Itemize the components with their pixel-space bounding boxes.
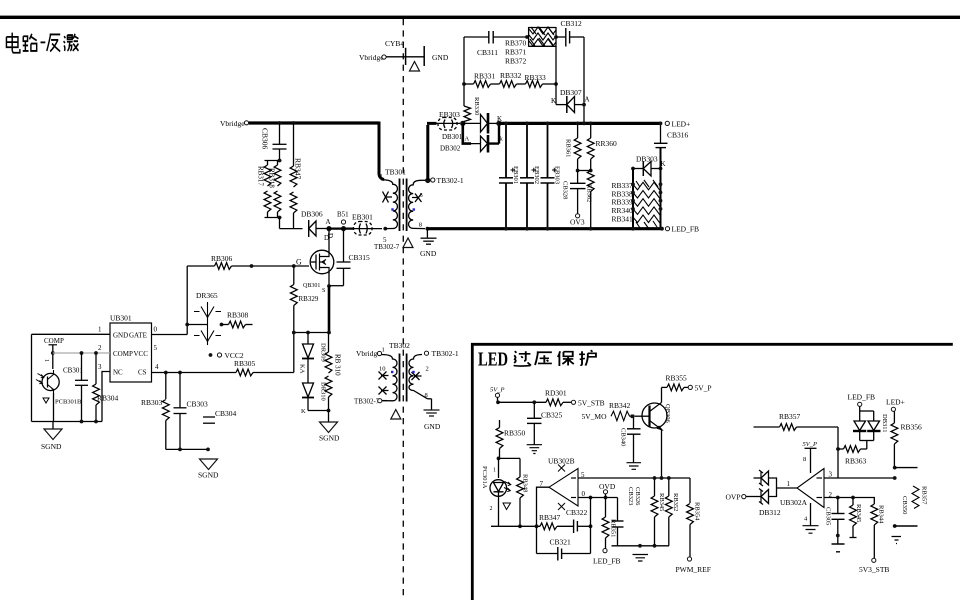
wire pin3 net [824, 477, 895, 479]
svg-text:RB317: RB317 [257, 166, 265, 186]
node LED+ terminal [659, 120, 691, 129]
resistor RB355 [662, 374, 689, 391]
svg-text:RB345: RB345 [855, 504, 862, 522]
resistor RB332 [491, 71, 522, 87]
svg-text:RB344: RB344 [878, 505, 885, 524]
svg-text:CB304: CB304 [215, 409, 237, 418]
svg-text:A: A [326, 218, 331, 226]
wire snubber bottom [280, 228, 303, 230]
svg-text:A: A [465, 136, 470, 143]
svg-text:DB301: DB301 [442, 133, 463, 141]
svg-text:5: 5 [154, 344, 158, 352]
node LED_FB terminal [660, 225, 699, 234]
wire secondary vertical thick [427, 123, 437, 180]
svg-text:EB301: EB301 [352, 213, 373, 222]
resistor RB306 (gate series) [187, 254, 309, 269]
node Vbridge (primary input terminal) [220, 119, 249, 128]
svg-text:CB328: CB328 [562, 181, 569, 199]
capacitor CB305 [825, 498, 845, 552]
op-amp U_B301 controller IC UB301 [98, 314, 159, 383]
svg-text:TB302-1: TB302-1 [432, 349, 459, 358]
wire comp network bottom rail [612, 545, 670, 547]
resistor RB333 [517, 73, 558, 87]
core TB302 [399, 354, 401, 402]
svg-text:PC301A: PC301A [481, 466, 488, 489]
svg-text:TB302-1: TB302-1 [437, 176, 464, 185]
svg-text:CB350: CB350 [901, 496, 908, 514]
resistor RB345 (to +in) [651, 476, 665, 546]
svg-text:10: 10 [379, 366, 386, 373]
svg-text:S: S [322, 288, 325, 294]
svg-text:PCB301B: PCB301B [55, 399, 82, 406]
wire diode bottom [308, 410, 329, 412]
wire pin6 node vertical [590, 498, 592, 554]
capacitor CYB4 (Y-cap across isolation) [359, 39, 449, 66]
shunt resistor block RB337-RB341 [631, 148, 662, 231]
primary winding [381, 180, 397, 229]
svg-text:5V3_STB: 5V3_STB [859, 565, 889, 574]
svg-text:DB312: DB312 [759, 508, 781, 517]
resistor RB348 [517, 472, 529, 528]
diode DB303 [631, 155, 665, 177]
capacitor CB306 [261, 123, 287, 161]
resistor RB352 [665, 476, 679, 546]
node junction on bus (RB347) [292, 121, 296, 125]
resistor RB331 [464, 72, 496, 88]
node OVD terminal [599, 482, 616, 498]
svg-text:OVD: OVD [599, 482, 616, 491]
svg-text:CB323: CB323 [627, 487, 634, 505]
node bus junctions [576, 122, 580, 126]
svg-text:RB356: RB356 [901, 423, 923, 432]
resistor RB361 [565, 123, 581, 170]
wire bracket to snubber diode line [279, 218, 281, 229]
capacitor CB311 [477, 31, 527, 57]
ground (right stub) [892, 537, 902, 544]
svg-text:EB301: EB301 [512, 166, 519, 184]
svg-text:RB305: RB305 [234, 359, 256, 368]
svg-text:RB345: RB345 [658, 493, 665, 511]
svg-text:TB302-7: TB302-7 [354, 398, 380, 406]
svg-text:GND: GND [432, 53, 449, 62]
svg-text:RB355: RB355 [666, 374, 688, 383]
svg-text:2: 2 [490, 506, 493, 512]
svg-text:RB318: RB318 [268, 168, 276, 188]
svg-text:PWM_REF: PWM_REF [676, 565, 711, 574]
resistor RB345 (pin2 load) [850, 498, 863, 538]
svg-text:RB350: RB350 [504, 429, 526, 438]
svg-text:3: 3 [98, 363, 102, 371]
svg-text:OV3: OV3 [570, 218, 585, 227]
ground (CB325) [527, 445, 542, 454]
capacitor CB328 [562, 171, 586, 214]
polarity dots TB302 (blue) [391, 371, 393, 373]
title 电路-反激 [6, 33, 78, 53]
svg-text:RB357: RB357 [779, 412, 801, 421]
svg-text:DB303: DB303 [636, 155, 658, 164]
resistor RB350 [496, 420, 525, 460]
capacitor CB325 [527, 402, 563, 444]
secondary winding [409, 180, 425, 228]
wire output return bus [427, 227, 662, 230]
svg-text:Vbridge: Vbridge [359, 53, 384, 62]
transformer TB302 (aux) [354, 341, 459, 406]
svg-text:8: 8 [803, 456, 806, 463]
svg-text:RB342: RB342 [609, 401, 631, 410]
wire left gate rail [186, 266, 188, 335]
primary tap X [383, 192, 393, 203]
resistor RB330 [462, 37, 480, 122]
wire pin2 net [824, 498, 874, 505]
svg-text:RB363: RB363 [845, 457, 867, 466]
svg-text:EB302: EB302 [533, 166, 540, 184]
svg-text:CB321: CB321 [550, 538, 572, 547]
capacitor CB312 [556, 19, 584, 47]
wire pin1 to left rail [32, 333, 111, 335]
svg-text:RB372: RB372 [505, 57, 527, 66]
node PWM_REF terminal [676, 557, 711, 574]
op-amp UB302A [777, 469, 833, 508]
op-amp UB302B [535, 457, 586, 529]
svg-text:RR360: RR360 [596, 139, 618, 148]
svg-text:LED+: LED+ [672, 120, 691, 129]
secondary winding TB302 [409, 355, 428, 399]
svg-text:RB352: RB352 [672, 493, 679, 511]
resistor RB357 (sense) [912, 486, 928, 509]
wire bottom rail [32, 421, 103, 423]
wire +in (pin5) [578, 477, 690, 479]
node 5V_P power (UB302A pin8) [803, 441, 817, 473]
diode DB306 [301, 210, 327, 238]
node COMP stub [44, 337, 64, 369]
ground (CB340) [627, 463, 642, 470]
ground SGND (clamp) [319, 411, 340, 443]
svg-text:RB341: RB341 [612, 214, 634, 223]
svg-text:CB311: CB311 [477, 48, 498, 57]
transistor QB306 [635, 387, 672, 480]
ferrite bead EB301 [346, 213, 382, 236]
node 5V_P terminal (QB306) [688, 384, 711, 393]
top border line [0, 16, 960, 19]
resistor RB351 [602, 498, 616, 549]
resistor RB310 [325, 333, 341, 411]
wire pin2 (faint) [53, 352, 110, 354]
svg-text:CB340: CB340 [620, 428, 627, 446]
svg-text:1: 1 [382, 347, 385, 354]
svg-text:CB303: CB303 [187, 400, 209, 409]
optocoupler PC301A (LED side) [481, 458, 511, 526]
diode DR310 [301, 382, 327, 415]
svg-text:3: 3 [829, 471, 833, 479]
svg-text:1: 1 [787, 480, 791, 488]
capacitor CB340 [620, 418, 641, 463]
resistor RB329 (gate-source) [290, 266, 318, 333]
svg-text:RB354: RB354 [694, 502, 701, 521]
svg-text:COMP: COMP [113, 350, 133, 358]
diode DR365 (dual) [187, 291, 221, 345]
resistor RB308 [220, 311, 253, 328]
resistor RB347 (feedback) [539, 513, 573, 530]
ground GND (TB302) [424, 399, 441, 431]
svg-text:SGND: SGND [41, 442, 62, 451]
svg-text:8: 8 [419, 222, 422, 229]
svg-text:RB357: RB357 [921, 486, 928, 505]
svg-text:UB302B: UB302B [548, 457, 575, 466]
resistor RB356 [891, 412, 922, 467]
svg-text:RB304: RB304 [97, 394, 119, 403]
LED protection box border [472, 344, 953, 600]
ground SGND (CS network) [198, 459, 219, 480]
snubber: wire top rail [464, 36, 489, 38]
resistor RB344 [871, 504, 885, 558]
node TB302-1 terminal [421, 179, 426, 181]
svg-text:CB326: CB326 [634, 487, 641, 506]
svg-text:1: 1 [98, 326, 102, 334]
svg-text:LED+: LED+ [886, 398, 905, 407]
ground delta (TB301) [403, 238, 413, 248]
diode DB302 [440, 123, 504, 152]
svg-text:CB306: CB306 [261, 128, 270, 150]
svg-text:RB329: RB329 [299, 295, 319, 303]
diode DR309 [299, 333, 327, 384]
svg-text:CB301: CB301 [63, 367, 83, 375]
wire parallel bracket bottom [265, 217, 282, 219]
wire RB357 drop to pin3 [837, 427, 839, 478]
svg-text:TB302-7: TB302-7 [374, 243, 400, 251]
node 5V3_STB terminal [859, 558, 889, 574]
svg-text:CB305: CB305 [825, 507, 832, 525]
polarity dots (blue) [391, 208, 393, 210]
svg-text:NC: NC [113, 369, 123, 377]
svg-text:4: 4 [155, 363, 159, 371]
svg-text:GND: GND [113, 332, 128, 340]
wire parallel bracket top [265, 160, 282, 162]
resistor RB363 [838, 446, 867, 466]
svg-text:3: 3 [420, 192, 423, 199]
svg-text:5V_MO: 5V_MO [582, 412, 608, 421]
svg-text:5V_STB: 5V_STB [578, 398, 605, 407]
node rectifier input junction [460, 121, 465, 126]
svg-text:DR309: DR309 [320, 343, 327, 362]
svg-text:UB301: UB301 [110, 314, 132, 323]
svg-text:RB332: RB332 [500, 71, 522, 80]
wire CS network bottom [166, 448, 208, 450]
node 5V_STB terminal [571, 398, 604, 407]
svg-text:1: 1 [43, 359, 49, 362]
svg-text:DB307: DB307 [560, 88, 582, 97]
svg-text:DB306: DB306 [301, 210, 323, 219]
resistor RB370 RB371 RB372 (parallel block) [505, 27, 558, 66]
svg-text:5V_P: 5V_P [695, 384, 712, 393]
svg-text:LED_FB: LED_FB [672, 225, 700, 234]
ferrite bead EB303 [437, 110, 461, 130]
svg-text:SGND: SGND [198, 471, 219, 480]
resistor RB347 [290, 123, 302, 229]
node B51 terminal [337, 211, 349, 232]
LED box title [478, 349, 596, 371]
capacitor EB303 (electrolytic) [541, 122, 561, 231]
svg-text:RB351: RB351 [610, 519, 617, 537]
resistor RD301 [498, 389, 572, 406]
resistor RB362 [586, 171, 595, 231]
ground delta (CYB4) [410, 62, 420, 72]
svg-text:K: K [551, 97, 556, 105]
node 5V_P terminal (left) [490, 387, 504, 405]
capacitor CB301 [63, 351, 88, 421]
svg-text:G: G [296, 258, 302, 267]
svg-text:EB303: EB303 [554, 166, 561, 184]
center isolation dashed line [402, 19, 404, 600]
node LED_FB terminal (comp) [593, 549, 621, 566]
svg-text:TB302: TB302 [389, 341, 410, 350]
resistor RB354 [687, 478, 701, 557]
capacitor CB316 [654, 123, 689, 168]
svg-text:RB347: RB347 [539, 513, 561, 522]
wire snubber mid rail [555, 46, 557, 104]
node OVP terminal [726, 493, 762, 502]
svg-text:TB301: TB301 [385, 168, 406, 177]
resistor RB357 [754, 412, 839, 430]
svg-text:0: 0 [154, 326, 158, 334]
wire source node rail [294, 332, 329, 334]
svg-text:LED_FB: LED_FB [593, 557, 621, 566]
node A (drain node) [326, 218, 335, 238]
wire GATE pin to rail [152, 334, 188, 336]
capacitor EB302 (electrolytic) [520, 122, 540, 231]
resistor RB304 [93, 351, 119, 421]
svg-text:RB330: RB330 [473, 97, 480, 115]
svg-text:RD301: RD301 [545, 389, 567, 398]
svg-text:CB325: CB325 [541, 411, 563, 420]
svg-text:CB316: CB316 [667, 131, 689, 140]
svg-text:GATE: GATE [129, 332, 147, 340]
wire snubber right drop [583, 37, 585, 123]
wire drain bus segment [327, 228, 353, 230]
wire pin3 drop [102, 372, 110, 422]
svg-text:0: 0 [582, 490, 586, 498]
svg-text:5V_P: 5V_P [803, 441, 817, 448]
node stub upper right [893, 466, 918, 470]
transistor QB301 (MOSFET) [303, 231, 334, 294]
svg-text:2: 2 [426, 366, 429, 373]
svg-text:DB302: DB302 [440, 145, 461, 153]
wire primary top bus [249, 121, 379, 124]
svg-text:UB302A: UB302A [780, 498, 808, 507]
svg-text:RB361: RB361 [565, 139, 572, 157]
svg-text:QB301: QB301 [303, 283, 320, 289]
resistor RB342 [582, 401, 635, 421]
wire thick source drop [328, 286, 331, 333]
svg-text:Vbridge: Vbridge [220, 119, 245, 128]
svg-text:RB370: RB370 [505, 39, 527, 48]
svg-text:CB312: CB312 [561, 19, 583, 28]
capacitor CB315 [329, 231, 370, 286]
ground delta (TB302) [391, 410, 401, 420]
ground (UB302A pin4) [803, 503, 819, 533]
svg-text:K: K [301, 408, 306, 415]
svg-text:KA: KA [299, 364, 306, 374]
ground SGND (left) [41, 422, 62, 452]
ground (comp network) [633, 555, 649, 562]
wire thick drop to TB301 pin1 [379, 122, 384, 180]
wire feedback bottom rail [491, 525, 540, 527]
svg-text:CYB4: CYB4 [385, 39, 404, 48]
svg-text:LED_FB: LED_FB [848, 393, 876, 402]
resistor RB318 [268, 161, 281, 218]
svg-text:5V_P: 5V_P [490, 387, 504, 394]
svg-text:CB315: CB315 [349, 253, 371, 262]
optocoupler PCB301B (transistor side) [36, 359, 82, 422]
capacitor CB323 / CB326 [612, 487, 642, 546]
svg-text:CB322: CB322 [566, 508, 588, 517]
svg-text:GND: GND [420, 249, 437, 258]
svg-text:RB306: RB306 [211, 254, 233, 263]
core lines [399, 179, 401, 232]
svg-text:1: 1 [493, 468, 496, 474]
primary winding TB302 [382, 355, 398, 401]
svg-text:OVP: OVP [726, 493, 741, 502]
node VCC2 terminal [209, 351, 244, 360]
svg-text:CS: CS [138, 369, 147, 377]
svg-text:RB331: RB331 [474, 72, 496, 81]
wire divider mid [578, 170, 591, 172]
secondary tap X [412, 194, 422, 203]
svg-text:RB 310: RB 310 [334, 354, 342, 376]
svg-text:D: D [324, 234, 329, 242]
capacitor EB301 (electrolytic) [499, 122, 519, 231]
wire -in (pin6) [578, 497, 618, 499]
node CS junctions [164, 371, 168, 375]
svg-text:RB308: RB308 [227, 311, 249, 320]
svg-text:COMP: COMP [44, 337, 64, 345]
wire 5V node to opto/divider [499, 457, 521, 459]
resistor RR360 [587, 123, 617, 170]
ground GND (secondary) [420, 229, 437, 258]
node LED+ terminal (right) [886, 398, 905, 412]
capacitor CB321 [537, 526, 591, 560]
wire output bus LED+ [499, 122, 661, 125]
node TB302-1 terminal (top right) [424, 351, 428, 355]
svg-text:VCC: VCC [134, 350, 149, 358]
diode DB301 [442, 113, 497, 141]
svg-text:DB311: DB311 [881, 414, 888, 433]
node rectifier output [496, 121, 501, 126]
transformer TB301 [380, 168, 464, 232]
capacitor CB303 [174, 373, 209, 450]
wire left rail [31, 334, 33, 421]
diode DB312 (dual zener) [754, 470, 781, 517]
diode DB307 [551, 88, 590, 113]
diode DB311 (dual LED clamp) [848, 393, 889, 450]
resistor RB317 [257, 161, 271, 218]
svg-text:RB371: RB371 [505, 48, 527, 57]
capacitor CB322 [566, 508, 592, 533]
svg-text:RB303: RB303 [141, 398, 163, 407]
capacitor CB304 [203, 409, 237, 423]
resistor RB303 [141, 373, 169, 450]
svg-text:GND: GND [424, 422, 441, 431]
svg-text:LED: LED [478, 349, 508, 371]
svg-text:1: 1 [380, 173, 383, 180]
svg-text:A: A [585, 96, 590, 104]
svg-text:B51: B51 [337, 211, 349, 219]
svg-text:DR365: DR365 [196, 291, 218, 300]
svg-text:SGND: SGND [319, 434, 340, 443]
node junction on bus (CB306) [278, 121, 282, 125]
node stub lower right [893, 524, 918, 528]
node TB302-7 terminal (pin5) [374, 227, 400, 251]
resistor RB305 (CS line) [152, 333, 294, 376]
